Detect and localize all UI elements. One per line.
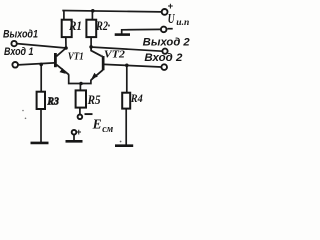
speck [25, 118, 27, 120]
svg-text:R1: R1 [68, 18, 82, 33]
wire R2 bottom lead to collector node [90, 37, 92, 47]
svg-text:VT1: VT1 [68, 52, 84, 63]
wire E_sm plus terminal stub [73, 135, 75, 142]
svg-text:Вход 2: Вход 2 [144, 52, 182, 64]
ground under supply minus [115, 33, 130, 36]
speck [101, 55, 103, 57]
node VT2 collector [89, 45, 93, 49]
svg-text:R2: R2 [95, 18, 108, 33]
minus sign U supply [168, 28, 173, 30]
wire VT2 emitter to common node [81, 80, 91, 84]
svg-text:Выход 2: Выход 2 [143, 37, 190, 49]
transistor Q1 emitter arrow [60, 68, 66, 74]
svg-text:Вход 1: Вход 1 [4, 46, 34, 58]
wire supply minus to ground [122, 29, 161, 34]
transistor Q2 collector [91, 47, 102, 57]
resistor R1 [62, 20, 72, 37]
transistor Q1 emitter [56, 65, 68, 75]
wire input 1 to VT1 base [18, 63, 54, 65]
ground under E_sm plus [66, 140, 83, 143]
resistor R5 [76, 90, 86, 107]
svg-text:R4: R4 [130, 93, 143, 105]
wire output 2 from VT2 collector node [93, 47, 163, 51]
wire R3 bottom lead [40, 109, 42, 143]
svg-text:R3: R3 [47, 97, 59, 108]
transistor Q2 base bar [102, 56, 105, 70]
ground under R4 [115, 144, 133, 147]
terminal output 2 [162, 49, 167, 54]
transistor Q2 emitter [91, 70, 103, 80]
terminal supply plus [162, 9, 168, 15]
ground under R3 [31, 142, 49, 145]
resistor R4 [122, 93, 130, 109]
node input 2 / R4 [125, 64, 129, 68]
wire input 2 to VT2 base [104, 64, 161, 67]
wire R4 top lead from input 2 node [126, 65, 128, 92]
svg-text:E: E [92, 118, 102, 133]
wire R1 bottom lead to collector node [65, 37, 67, 48]
svg-text:+: + [76, 127, 81, 137]
wire top supply rail [62, 11, 161, 12]
svg-text:R5: R5 [87, 93, 101, 107]
transistor Q1 collector [56, 48, 66, 56]
node input 1 / R3 [39, 63, 43, 67]
transistor Q1 base bar [54, 53, 57, 67]
terminal input 1 [12, 62, 18, 68]
svg-text:+: + [168, 1, 174, 12]
node common emitters [79, 82, 83, 86]
minus sign E_sm [85, 113, 93, 115]
terminal E_sm plus [72, 130, 77, 135]
wire R2 top lead [91, 11, 93, 20]
resistor R2 [86, 20, 96, 37]
speck [108, 24, 110, 26]
node VT1 collector [64, 46, 68, 50]
svg-text:VT2: VT2 [104, 49, 125, 60]
speck [22, 110, 24, 112]
svg-text:и.п: и.п [176, 18, 189, 28]
transistor Q2 emitter arrow [92, 73, 98, 79]
svg-text:см: см [102, 124, 113, 135]
node junction top rail R2 [91, 9, 95, 13]
terminal E_sm minus [78, 115, 83, 120]
speck [120, 141, 122, 143]
terminal supply minus [161, 27, 167, 33]
resistor R3 [37, 92, 45, 109]
wire R3 top lead from input 1 node [40, 64, 42, 91]
wire R5 top lead from emitter node [79, 84, 81, 91]
wire VT1 emitter to common node [69, 74, 81, 83]
wire R1 top lead [63, 11, 65, 20]
svg-text:U: U [168, 12, 176, 27]
wire R5 bottom stub [79, 108, 81, 115]
terminal input 2 [161, 64, 167, 70]
wire output 1 to VT1 collector node [17, 44, 66, 48]
terminal output 1 [11, 41, 16, 46]
wire R4 bottom lead [125, 109, 127, 146]
svg-text:Выход1: Выход1 [3, 28, 38, 40]
